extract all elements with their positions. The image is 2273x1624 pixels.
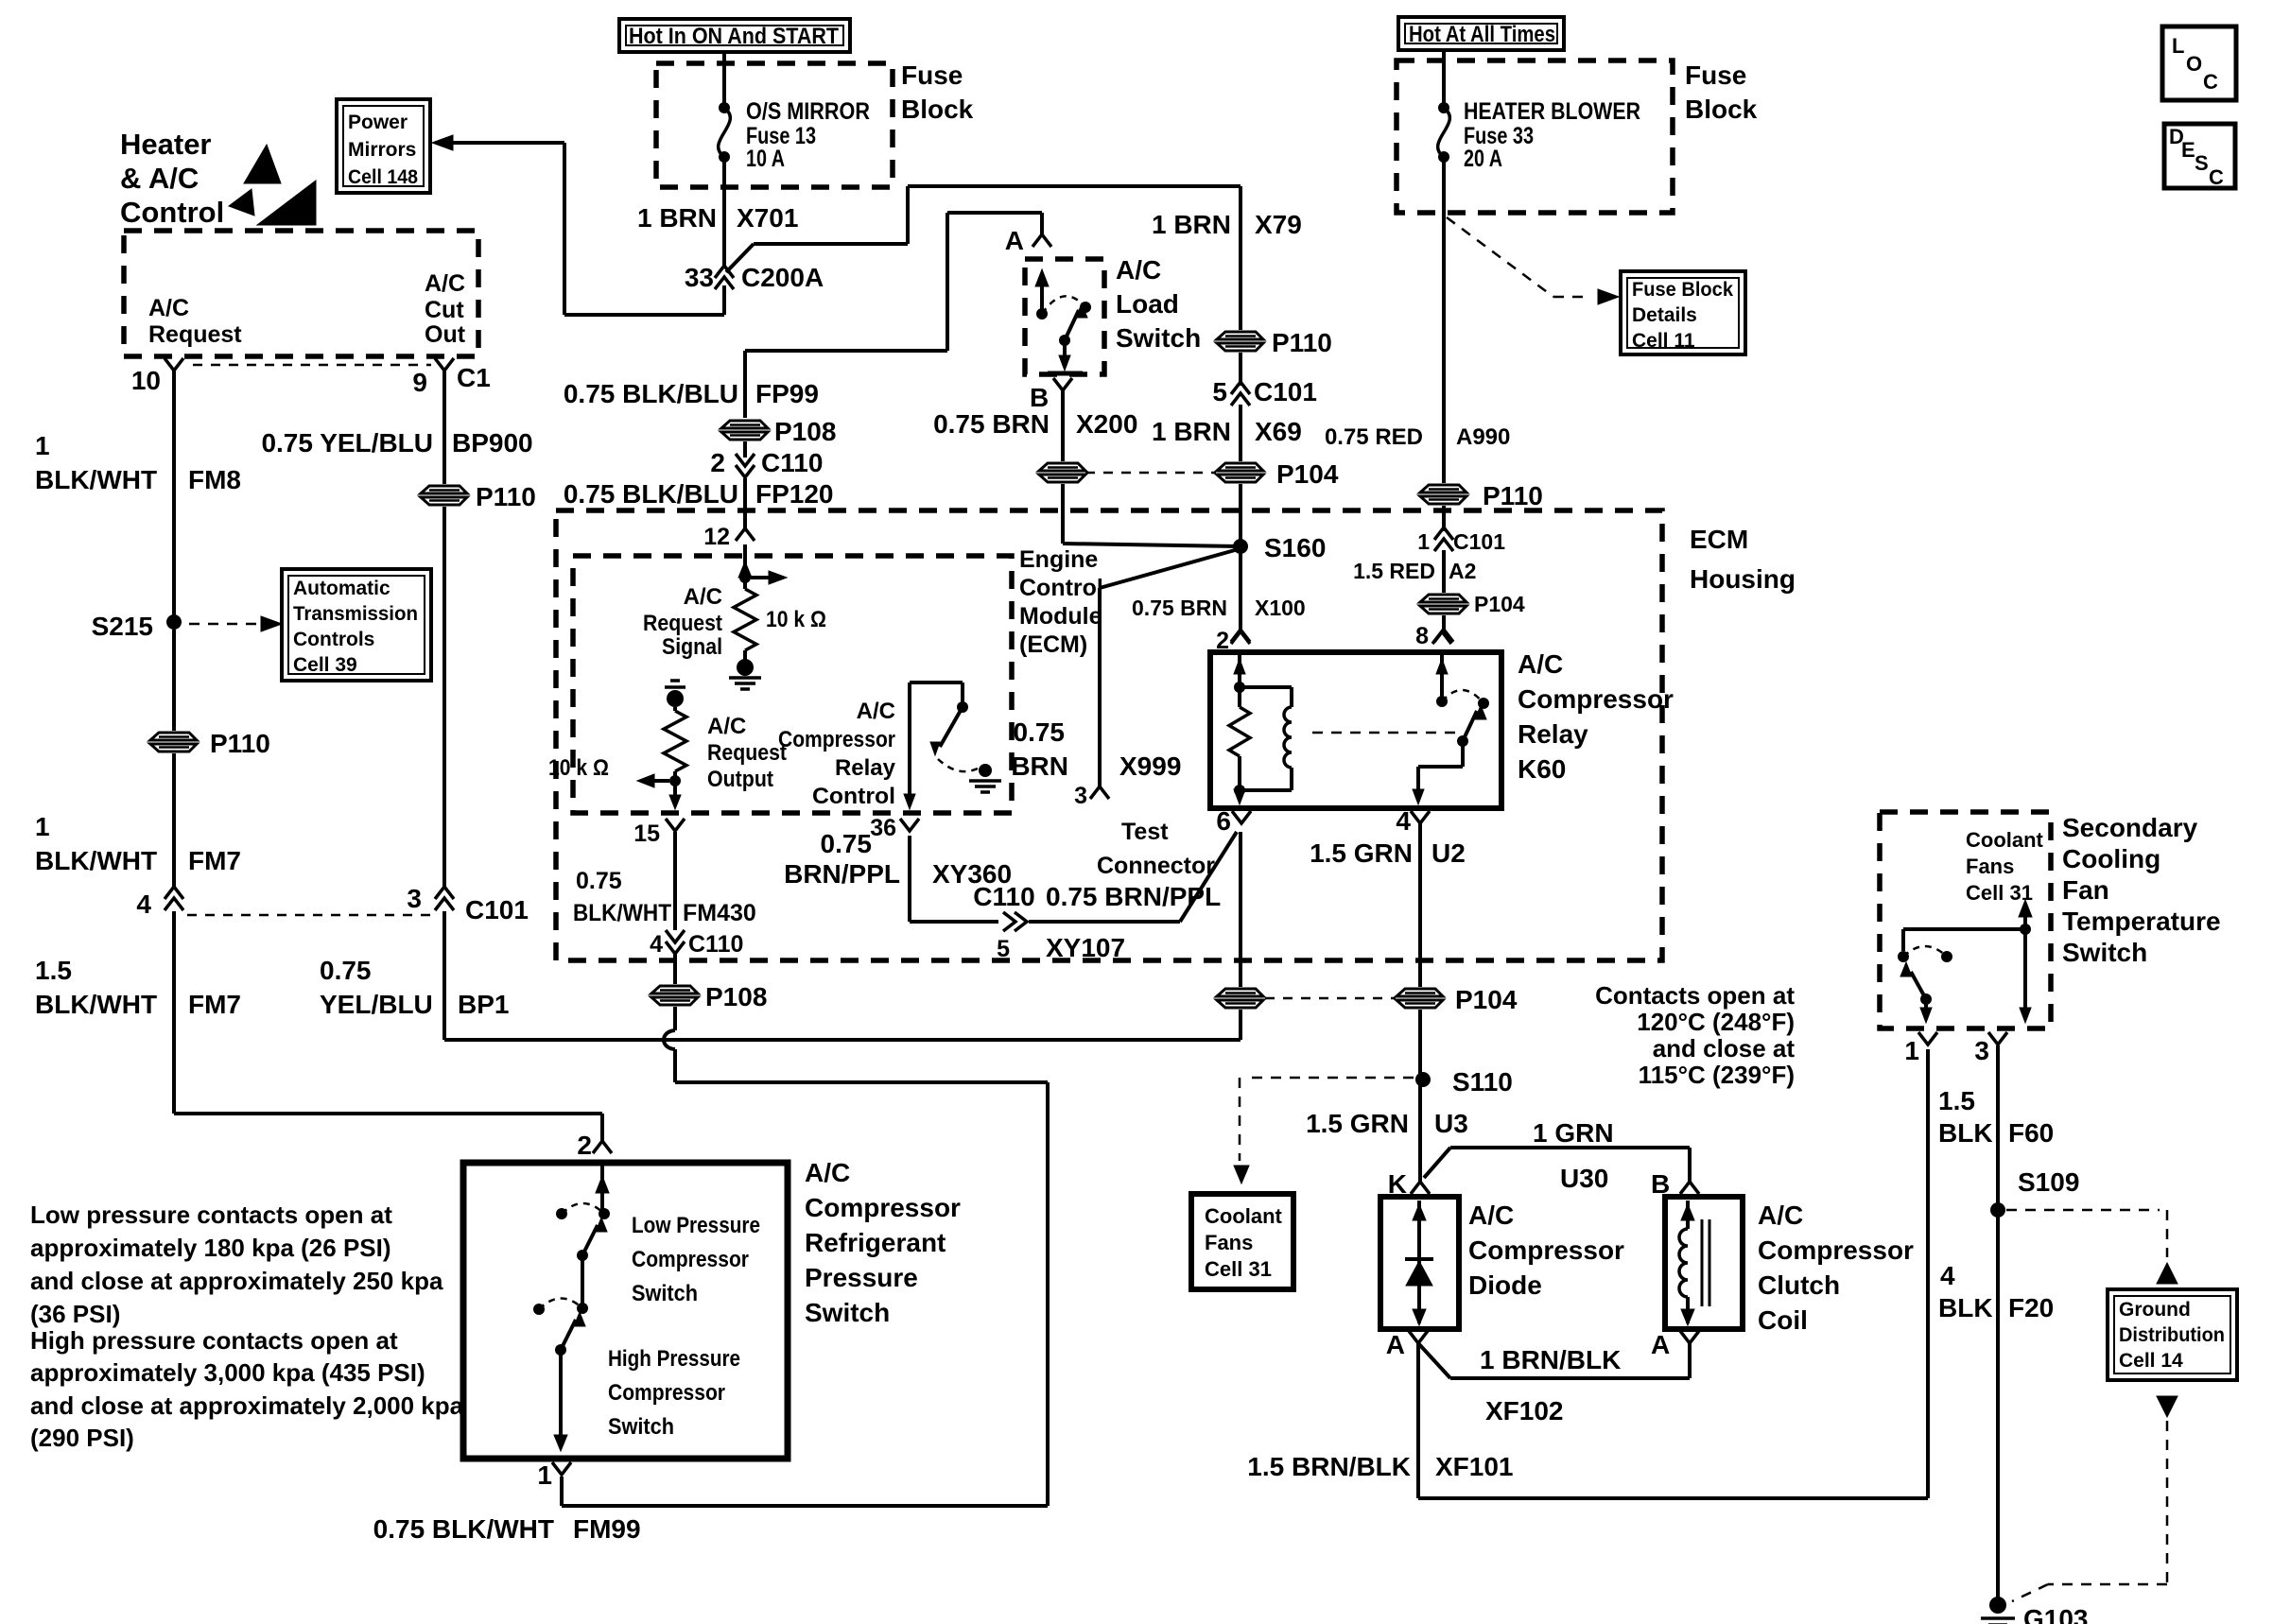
svg-text:HEATER BLOWER: HEATER BLOWER [1464, 98, 1640, 125]
svg-text:BRN: BRN [1011, 752, 1068, 781]
svg-text:Relay: Relay [835, 755, 896, 781]
svg-text:FP120: FP120 [755, 479, 834, 509]
svg-text:P110: P110 [1483, 481, 1543, 510]
svg-text:C1: C1 [457, 363, 491, 392]
svg-text:A/C: A/C [1468, 1201, 1514, 1230]
svg-text:S110: S110 [1452, 1067, 1513, 1097]
svg-text:Block: Block [901, 95, 974, 124]
svg-text:Coil: Coil [1758, 1305, 1808, 1335]
svg-text:S160: S160 [1264, 533, 1326, 562]
svg-text:C101: C101 [1453, 529, 1505, 554]
svg-text:Compressor: Compressor [1758, 1235, 1914, 1265]
svg-text:Diode: Diode [1468, 1270, 1542, 1300]
svg-text:S215: S215 [92, 612, 153, 641]
svg-text:0.75: 0.75 [1014, 717, 1066, 747]
svg-text:12: 12 [703, 524, 730, 550]
svg-text:Control: Control [1019, 575, 1103, 601]
svg-text:1.5 GRN: 1.5 GRN [1310, 838, 1413, 868]
svg-text:Fans: Fans [1205, 1231, 1253, 1254]
svg-text:33: 33 [685, 263, 714, 292]
svg-text:Fans: Fans [1966, 855, 2014, 878]
svg-text:Contacts open at: Contacts open at [1595, 981, 1795, 1010]
svg-text:X69: X69 [1255, 417, 1302, 446]
svg-text:BLK/WHT: BLK/WHT [35, 465, 157, 494]
svg-text:C101: C101 [1254, 377, 1317, 406]
svg-text:A: A [1386, 1330, 1405, 1359]
svg-text:Cut: Cut [425, 297, 464, 323]
svg-text:1.5: 1.5 [35, 956, 72, 985]
svg-text:Coolant: Coolant [1966, 828, 2044, 852]
svg-text:X999: X999 [1119, 752, 1181, 781]
svg-text:P104: P104 [1276, 459, 1339, 489]
svg-text:C200A: C200A [741, 263, 824, 292]
svg-text:3: 3 [407, 884, 422, 913]
svg-text:BRN/PPL: BRN/PPL [784, 859, 900, 889]
svg-text:Switch: Switch [805, 1298, 890, 1327]
svg-text:X79: X79 [1255, 210, 1302, 239]
svg-text:P110: P110 [210, 729, 270, 758]
svg-text:Compressor: Compressor [805, 1193, 961, 1222]
svg-text:and close at: and close at [1653, 1034, 1796, 1063]
svg-text:O: O [2186, 52, 2202, 76]
svg-text:E: E [2181, 138, 2195, 162]
svg-text:Connector: Connector [1097, 853, 1215, 879]
svg-text:Output: Output [707, 767, 773, 792]
svg-text:Relay: Relay [1518, 719, 1588, 749]
svg-text:Compressor: Compressor [778, 727, 895, 752]
svg-text:5: 5 [1212, 377, 1227, 406]
svg-text:Load: Load [1116, 289, 1179, 319]
svg-text:1 BRN/BLK: 1 BRN/BLK [1480, 1345, 1621, 1374]
svg-text:Control: Control [812, 784, 895, 809]
svg-text:A/C: A/C [1518, 649, 1563, 679]
svg-text:Switch: Switch [608, 1414, 674, 1440]
svg-text:Power: Power [348, 112, 408, 133]
svg-text:G103: G103 [2023, 1604, 2089, 1624]
svg-text:1 GRN: 1 GRN [1533, 1118, 1614, 1148]
svg-text:ECM: ECM [1690, 525, 1748, 554]
svg-text:1 BRN: 1 BRN [637, 203, 717, 233]
svg-text:BLK/WHT: BLK/WHT [573, 900, 671, 926]
svg-text:Cell 31: Cell 31 [1966, 881, 2033, 905]
svg-text:120°C (248°F): 120°C (248°F) [1637, 1008, 1795, 1036]
svg-text:Ground: Ground [2119, 1299, 2191, 1321]
svg-text:O/S MIRROR: O/S MIRROR [746, 98, 870, 125]
svg-text:10: 10 [131, 366, 161, 395]
svg-text:Signal: Signal [662, 634, 722, 660]
svg-text:BP900: BP900 [452, 428, 533, 458]
svg-text:Compressor: Compressor [608, 1380, 725, 1406]
svg-text:K60: K60 [1518, 754, 1566, 784]
svg-text:Secondary: Secondary [2062, 813, 2198, 842]
svg-text:A/C: A/C [148, 295, 189, 321]
svg-text:(290 PSI): (290 PSI) [30, 1424, 134, 1452]
svg-text:C: C [2203, 70, 2218, 94]
svg-text:FM8: FM8 [188, 465, 241, 494]
svg-text:YEL/BLU: YEL/BLU [320, 990, 433, 1019]
svg-text:0.75 RED: 0.75 RED [1325, 424, 1423, 450]
svg-text:Hot At All Times: Hot At All Times [1409, 22, 1555, 47]
svg-text:XY107: XY107 [1046, 933, 1125, 962]
svg-text:4: 4 [650, 931, 663, 958]
svg-text:Cell 148: Cell 148 [348, 166, 418, 188]
svg-text:A2: A2 [1449, 559, 1476, 583]
svg-text:9: 9 [412, 368, 427, 397]
svg-text:X100: X100 [1255, 596, 1306, 620]
svg-text:Controls: Controls [293, 629, 374, 650]
svg-text:P104: P104 [1455, 985, 1518, 1014]
svg-text:115°C (239°F): 115°C (239°F) [1639, 1061, 1795, 1089]
svg-text:approximately 3,000 kpa (435 P: approximately 3,000 kpa (435 PSI) [30, 1358, 425, 1387]
svg-text:Details: Details [1632, 304, 1697, 326]
svg-text:1.5: 1.5 [1938, 1086, 1975, 1115]
svg-text:Fuse: Fuse [901, 60, 963, 90]
svg-text:Low pressure contacts open at: Low pressure contacts open at [30, 1201, 392, 1229]
svg-text:Compressor: Compressor [1518, 684, 1674, 714]
svg-text:A/C: A/C [1758, 1201, 1803, 1230]
svg-text:0.75 BRN: 0.75 BRN [933, 409, 1050, 439]
svg-text:Refrigerant: Refrigerant [805, 1228, 946, 1257]
svg-text:F60: F60 [2008, 1118, 2054, 1148]
svg-text:1 BRN: 1 BRN [1152, 210, 1231, 239]
svg-text:Fuse Block: Fuse Block [1632, 279, 1733, 301]
svg-text:Low Pressure: Low Pressure [632, 1213, 760, 1238]
svg-text:X701: X701 [737, 203, 798, 233]
svg-text:0.75: 0.75 [576, 868, 622, 894]
svg-text:0.75 BLK/WHT: 0.75 BLK/WHT [373, 1514, 554, 1544]
svg-text:Mirrors: Mirrors [348, 139, 416, 161]
svg-text:P108: P108 [705, 982, 767, 1011]
svg-text:Hot In ON And START: Hot In ON And START [629, 24, 839, 49]
svg-text:20 A: 20 A [1464, 146, 1502, 172]
svg-text:A/C: A/C [1116, 255, 1161, 285]
svg-text:and close at approximately 2,0: and close at approximately 2,000 kpa [30, 1391, 464, 1420]
svg-text:U2: U2 [1431, 838, 1466, 868]
svg-text:B: B [1030, 383, 1049, 412]
svg-text:Test: Test [1121, 819, 1169, 845]
svg-text:approximately 180 kpa (26 PSI): approximately 180 kpa (26 PSI) [30, 1234, 391, 1262]
svg-text:C: C [2209, 165, 2224, 189]
svg-text:0.75 BLK/BLU: 0.75 BLK/BLU [564, 379, 738, 408]
svg-text:0.75 BRN: 0.75 BRN [1132, 596, 1227, 620]
svg-text:1: 1 [1904, 1036, 1919, 1065]
svg-text:1.5 GRN: 1.5 GRN [1306, 1109, 1409, 1138]
svg-text:Block: Block [1685, 95, 1758, 124]
svg-text:Compressor: Compressor [1468, 1235, 1624, 1265]
svg-text:Switch: Switch [2062, 938, 2147, 967]
svg-text:1: 1 [1417, 529, 1430, 554]
svg-text:Transmission: Transmission [293, 603, 418, 625]
svg-text:3: 3 [1074, 783, 1087, 809]
svg-text:Temperature: Temperature [2062, 907, 2221, 936]
svg-text:Switch: Switch [1116, 323, 1201, 353]
svg-text:XY360: XY360 [932, 859, 1012, 889]
svg-text:Heater: Heater [120, 128, 212, 161]
svg-text:A/C: A/C [805, 1158, 850, 1187]
svg-text:Control: Control [120, 196, 224, 229]
svg-text:1 BRN: 1 BRN [1152, 417, 1231, 446]
svg-text:4: 4 [1396, 806, 1411, 836]
svg-text:Housing: Housing [1690, 564, 1796, 594]
svg-text:A/C: A/C [684, 584, 722, 610]
svg-text:XF101: XF101 [1435, 1452, 1514, 1481]
svg-text:C110: C110 [761, 448, 823, 477]
svg-text:Cell 31: Cell 31 [1205, 1257, 1272, 1281]
svg-text:5: 5 [997, 936, 1010, 962]
svg-text:FM7: FM7 [188, 846, 241, 875]
svg-text:BLK: BLK [1938, 1118, 1993, 1148]
svg-text:A: A [1005, 226, 1024, 255]
svg-text:3: 3 [1974, 1036, 1989, 1065]
svg-text:BLK/WHT: BLK/WHT [35, 846, 157, 875]
svg-text:C110: C110 [688, 931, 743, 958]
svg-text:Pressure: Pressure [805, 1263, 918, 1292]
svg-text:0.75 BLK/BLU: 0.75 BLK/BLU [564, 479, 738, 509]
svg-text:(36 PSI): (36 PSI) [30, 1300, 120, 1328]
svg-text:Module: Module [1019, 603, 1102, 630]
svg-text:Request: Request [148, 321, 242, 348]
svg-text:P104: P104 [1474, 592, 1525, 616]
svg-text:Cell 14: Cell 14 [2119, 1350, 2183, 1372]
svg-text:P108: P108 [774, 417, 836, 446]
svg-text:& A/C: & A/C [120, 162, 199, 195]
svg-text:0.75: 0.75 [320, 956, 372, 985]
svg-text:0.75: 0.75 [821, 829, 873, 858]
svg-text:and close at approximately 250: and close at approximately 250 kpa [30, 1267, 443, 1295]
svg-text:Request: Request [643, 611, 722, 636]
svg-text:Switch: Switch [632, 1281, 698, 1306]
svg-text:F20: F20 [2008, 1293, 2054, 1322]
svg-text:Engine: Engine [1019, 546, 1098, 573]
svg-text:Fan: Fan [2062, 875, 2109, 905]
svg-text:A/C: A/C [707, 714, 746, 739]
svg-text:2: 2 [710, 448, 725, 477]
svg-text:High pressure contacts open at: High pressure contacts open at [30, 1326, 398, 1355]
svg-text:Cell 39: Cell 39 [293, 654, 357, 676]
svg-text:Automatic: Automatic [293, 578, 390, 599]
svg-text:L: L [2172, 34, 2184, 58]
svg-text:S: S [2195, 151, 2209, 175]
svg-text:4: 4 [1940, 1261, 1955, 1290]
svg-text:1: 1 [537, 1460, 552, 1490]
svg-text:P110: P110 [476, 482, 536, 511]
svg-text:10 k Ω: 10 k Ω [548, 755, 609, 781]
svg-text:U30: U30 [1560, 1164, 1608, 1193]
svg-text:S109: S109 [2018, 1167, 2079, 1197]
svg-text:1: 1 [35, 812, 50, 841]
svg-text:BLK/WHT: BLK/WHT [35, 990, 157, 1019]
svg-text:10 k Ω: 10 k Ω [766, 607, 826, 632]
svg-text:15: 15 [633, 821, 660, 847]
svg-text:1.5 BRN/BLK: 1.5 BRN/BLK [1247, 1452, 1411, 1481]
svg-text:A: A [1651, 1330, 1670, 1359]
svg-text:P110: P110 [1272, 328, 1332, 357]
svg-text:36: 36 [870, 815, 896, 841]
svg-text:(ECM): (ECM) [1019, 631, 1087, 658]
svg-text:U3: U3 [1434, 1109, 1468, 1138]
svg-text:10 A: 10 A [746, 146, 785, 172]
svg-text:Coolant: Coolant [1205, 1204, 1283, 1228]
svg-text:High Pressure: High Pressure [608, 1346, 740, 1372]
svg-text:A/C: A/C [857, 699, 895, 724]
svg-text:C101: C101 [465, 895, 529, 924]
svg-text:2: 2 [577, 1131, 592, 1160]
svg-text:FM430: FM430 [683, 900, 756, 926]
svg-text:X200: X200 [1076, 409, 1137, 439]
svg-text:1.5 RED: 1.5 RED [1353, 559, 1435, 583]
svg-text:Clutch: Clutch [1758, 1270, 1840, 1300]
svg-text:Request: Request [707, 740, 787, 766]
svg-text:8: 8 [1415, 623, 1429, 649]
svg-text:Distribution: Distribution [2119, 1324, 2225, 1346]
svg-text:0.75 YEL/BLU: 0.75 YEL/BLU [261, 428, 433, 458]
svg-text:FM7: FM7 [188, 990, 241, 1019]
svg-text:A990: A990 [1456, 424, 1510, 450]
svg-text:Cooling: Cooling [2062, 844, 2160, 873]
svg-text:BP1: BP1 [458, 990, 509, 1019]
svg-text:4: 4 [136, 890, 151, 919]
svg-text:Fuse: Fuse [1685, 60, 1746, 90]
svg-text:Cell 11: Cell 11 [1632, 330, 1695, 352]
svg-text:FP99: FP99 [755, 379, 819, 408]
svg-text:A/C: A/C [425, 270, 465, 297]
svg-text:6: 6 [1216, 806, 1231, 836]
svg-text:XF102: XF102 [1485, 1396, 1564, 1425]
svg-text:Compressor: Compressor [632, 1247, 749, 1272]
svg-text:Out: Out [425, 321, 466, 348]
svg-text:FM99: FM99 [573, 1514, 641, 1544]
svg-text:1: 1 [35, 431, 50, 460]
svg-text:BLK: BLK [1938, 1293, 1993, 1322]
